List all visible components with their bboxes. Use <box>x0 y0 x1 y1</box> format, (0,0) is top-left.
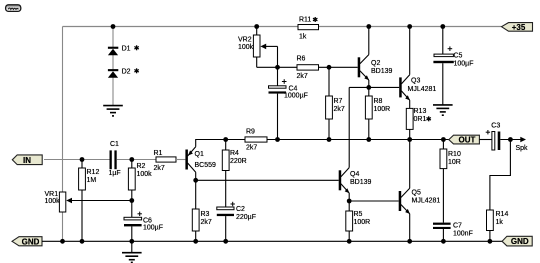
svg-text:1M: 1M <box>87 177 97 184</box>
wire OUT to C3 <box>479 139 492 141</box>
resistor R8 <box>365 87 390 139</box>
svg-text:R4: R4 <box>230 150 239 157</box>
svg-text:R1: R1 <box>154 150 163 157</box>
svg-text:R5: R5 <box>354 211 363 218</box>
svg-text:D2: D2 <box>122 68 131 75</box>
svg-text:MJL4281: MJL4281 <box>412 198 441 205</box>
capacitor C1 <box>109 141 121 177</box>
resistor R7 <box>326 67 345 139</box>
wire Q5 collector to output rail <box>409 140 411 189</box>
node GND junction C6 <box>129 239 134 244</box>
node Spk/R14 junction <box>508 137 513 142</box>
svg-text:BC559: BC559 <box>195 162 217 169</box>
node +35 junction D1 <box>111 24 116 29</box>
transistor Q1 <box>185 147 216 172</box>
wire feedback rail R9 to OUT <box>267 139 450 141</box>
node +35 junction Q2 collector <box>366 24 371 29</box>
svg-text:GND: GND <box>22 237 40 246</box>
svg-text:Q1: Q1 <box>195 151 204 158</box>
svg-text:Q5: Q5 <box>412 190 421 197</box>
svg-text:R9: R9 <box>246 129 255 136</box>
potentiometer VR1 <box>45 191 73 212</box>
svg-text:2k7: 2k7 <box>297 73 308 80</box>
svg-text:C3: C3 <box>491 123 500 130</box>
node Q4 emitter junction <box>347 199 352 204</box>
resistor R4 <box>222 140 246 208</box>
svg-text:1k: 1k <box>299 34 307 41</box>
node GND junction VR1 <box>60 239 65 244</box>
svg-text:100k: 100k <box>238 44 254 51</box>
node +35 junction VR2 <box>254 24 259 29</box>
svg-text:2k7: 2k7 <box>201 219 212 226</box>
tag IN <box>12 155 42 165</box>
svg-text:1k: 1k <box>496 219 504 226</box>
wire Q1 collector down <box>195 172 197 209</box>
node Q1 collector junction <box>193 178 198 183</box>
node R2 top junction <box>129 157 134 162</box>
resistor R11 <box>298 17 319 41</box>
node R4 top junction <box>223 137 228 142</box>
node +35 junction Q3 collector <box>407 24 412 29</box>
svg-text:VR2: VR2 <box>238 37 252 44</box>
svg-text:1µF: 1µF <box>109 170 121 177</box>
svg-text:MJL4281: MJL4281 <box>408 86 437 93</box>
svg-text:C7: C7 <box>453 223 462 230</box>
asterisk note R13 <box>427 116 431 121</box>
wire IN to C1 <box>44 159 110 161</box>
wire Q4 emitter to Q5 base <box>349 200 399 202</box>
svg-text:GND: GND <box>511 237 529 246</box>
svg-text:C6: C6 <box>143 217 152 224</box>
resistor R12 <box>79 160 100 242</box>
diode D2 <box>108 68 131 77</box>
transistor Q3 <box>399 75 436 101</box>
svg-text:220µF: 220µF <box>236 214 256 221</box>
node +35 junction C5 <box>440 24 445 29</box>
svg-text:2k7: 2k7 <box>154 165 165 172</box>
svg-text:R7: R7 <box>334 98 343 105</box>
svg-text:100k: 100k <box>45 198 61 205</box>
wire Q2 collector to +35 <box>368 27 370 55</box>
svg-text:R11: R11 <box>299 17 311 24</box>
wire +35 top rail <box>63 26 502 28</box>
svg-text:BD139: BD139 <box>350 179 372 186</box>
node GND junction R3 <box>193 239 198 244</box>
wire Q3 collector to +35 <box>409 27 411 75</box>
wire R14 jog from Spk node <box>490 140 511 211</box>
wire Q2 emitter down <box>368 80 370 87</box>
svg-text:Q2: Q2 <box>371 60 380 67</box>
wire Q5 emitter to GND rail <box>409 214 411 242</box>
svg-text:R12: R12 <box>87 169 100 176</box>
svg-text:IN: IN <box>23 156 31 165</box>
resistor R2 <box>128 160 152 201</box>
wire VR1 wiper to R2/C6 <box>70 200 132 202</box>
wire R1 to Q1 base <box>176 159 185 161</box>
wire D1-D2 <box>112 55 114 69</box>
wire R6 to Q2 base <box>319 66 358 68</box>
svg-text:2k7: 2k7 <box>334 106 345 113</box>
asterisk note D2 <box>134 68 138 73</box>
svg-text:10R: 10R <box>448 159 461 166</box>
wire Q1 collector to Q4 base <box>196 179 339 181</box>
svg-text:220R: 220R <box>230 158 247 165</box>
node R7 bottom junction <box>327 137 332 142</box>
capacitor C7 <box>433 223 473 242</box>
svg-text:VR1: VR1 <box>45 191 59 198</box>
wire Q4 emitter down <box>348 193 350 211</box>
svg-text:100µF: 100µF <box>454 61 474 68</box>
wire D1 top <box>112 27 114 48</box>
svg-text:R3: R3 <box>201 211 210 218</box>
tag +35 <box>502 23 533 32</box>
node GND junction R14 <box>488 239 493 244</box>
svg-text:R13: R13 <box>414 108 427 115</box>
svg-text:BD139: BD139 <box>371 68 393 75</box>
resistor R14 <box>487 210 509 241</box>
potentiometer VR2 <box>238 27 278 68</box>
svg-text:R2: R2 <box>137 163 146 170</box>
svg-text:C4: C4 <box>289 85 298 92</box>
node R10 top junction <box>441 137 446 142</box>
diode D1 <box>108 45 131 55</box>
resistor R1 <box>154 150 177 172</box>
svg-text:Q3: Q3 <box>411 78 420 85</box>
wire left rail lower (VR1 bottom to GND rail) <box>62 212 64 241</box>
svg-text:100k: 100k <box>137 171 153 178</box>
wire left rail upper (top rail to VR1 top) <box>62 27 64 193</box>
svg-text:1000µF: 1000µF <box>284 93 308 100</box>
svg-text:OUT: OUT <box>459 136 476 145</box>
wire Q2 emitter to Q4 collector <box>348 87 350 167</box>
capacitor C4 <box>269 67 308 139</box>
svg-text:D1: D1 <box>122 45 131 52</box>
node wiper/C4 junction <box>275 65 280 70</box>
asterisk note D1 <box>134 45 138 50</box>
transistor Q5 <box>399 188 441 214</box>
svg-text:R10: R10 <box>448 151 461 158</box>
tag GND right <box>502 236 532 246</box>
node GND junction R5 <box>347 239 352 244</box>
resistor R6 <box>297 56 319 81</box>
node GND junction C2 <box>223 239 228 244</box>
transistor Q2 <box>358 55 393 81</box>
logo badge <box>6 5 21 12</box>
svg-text:0R1: 0R1 <box>414 116 427 123</box>
transistor Q4 <box>339 168 372 194</box>
resistor R9 <box>245 129 267 152</box>
node R8 bottom junction <box>366 137 371 142</box>
svg-text:100R: 100R <box>374 106 391 113</box>
svg-text:2k7: 2k7 <box>246 145 257 152</box>
resistor R13 <box>406 108 426 140</box>
svg-text:100µF: 100µF <box>143 224 163 231</box>
ground below D2 <box>103 106 123 116</box>
wire D2 to ground <box>112 77 114 105</box>
wire VR2 bottom to R6 <box>257 66 297 68</box>
svg-text:Q4: Q4 <box>350 171 359 178</box>
wire C3 to Spk <box>500 139 521 141</box>
svg-text:C5: C5 <box>454 53 463 60</box>
svg-text:R6: R6 <box>297 56 306 63</box>
capacitor C3 <box>486 123 501 150</box>
wire Q3 emitter to R13 <box>409 100 411 108</box>
svg-text:100R: 100R <box>354 219 371 226</box>
svg-text:C1: C1 <box>110 141 119 148</box>
wire GND bottom rail <box>42 240 502 242</box>
svg-text:C2: C2 <box>236 206 245 213</box>
tag OUT <box>449 135 480 144</box>
resistor R5 <box>346 211 370 241</box>
node GND junction C7 <box>441 239 446 244</box>
wire C1 to R1 <box>117 159 156 161</box>
ground below C6 <box>122 253 142 263</box>
capacitor C2 <box>217 202 256 242</box>
wire C6 to ground symbol <box>131 241 133 252</box>
node wiper/R2/C6 junction <box>129 198 134 203</box>
node Q2 emitter junction <box>366 85 371 90</box>
node R13 bottom junction <box>407 137 412 142</box>
wire Q2 emitter / Q3 base line <box>349 86 399 88</box>
node Spk arrow <box>520 137 526 142</box>
node R12 top junction <box>80 157 85 162</box>
svg-text:R8: R8 <box>374 98 383 105</box>
ground below C5 <box>433 105 453 115</box>
node GND junction R12 <box>80 239 85 244</box>
svg-text:100nF: 100nF <box>453 230 473 237</box>
svg-text:+35: +35 <box>512 23 526 32</box>
node R6/R7 junction <box>327 65 332 70</box>
svg-text:Spk: Spk <box>516 145 529 152</box>
capacitor C6 <box>124 201 163 242</box>
node GND junction Q5 emitter <box>407 239 412 244</box>
node C4 bottom junction <box>275 137 280 142</box>
wire Q1 emitter to feedback rail <box>196 140 245 147</box>
capacitor C5 <box>433 27 473 105</box>
asterisk note R11 <box>313 17 317 22</box>
tag GND left <box>12 237 42 247</box>
resistor R10 <box>440 140 461 223</box>
svg-text:R14: R14 <box>496 211 509 218</box>
resistor R3 <box>192 209 212 241</box>
